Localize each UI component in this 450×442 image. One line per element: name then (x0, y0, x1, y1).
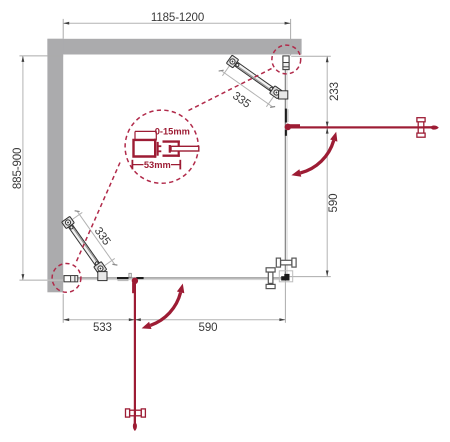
leader dashes (detail to small circles) (75, 67, 273, 264)
svg-text:53mm: 53mm (144, 160, 171, 170)
door line bottom (134, 281, 136, 423)
door stub bottom (132, 283, 135, 294)
wall top (gray) (47, 39, 301, 55)
support strut bottom (335 brace) (61, 208, 119, 277)
door edge seal bottom (teardrop) (133, 423, 137, 431)
door stub top (289, 124, 300, 127)
wall left (gray) (47, 39, 63, 292)
dim line right 233/590 (326, 56, 328, 276)
arrow left-bottom (22, 274, 25, 280)
knob on right panel (horizontal spool) (276, 258, 296, 267)
hinge black bar right panel (upper) (285, 109, 287, 123)
wall anchor plate (226, 55, 238, 68)
arrow bottom-533-right (129, 318, 135, 321)
ext line bottom-left (62, 294, 64, 323)
glass panel right (vertical, double line) (285, 70, 288, 279)
strut bottom glass mount (98, 272, 107, 281)
glass clamp (270, 86, 283, 99)
joint circle near clamp (269, 87, 273, 91)
glass clamp (94, 262, 107, 275)
svg-text:590: 590 (199, 322, 218, 334)
wall profile C (left) (134, 140, 157, 157)
dim line top 1185-1200 (63, 22, 290, 24)
53mm dim (132, 160, 180, 170)
strut bar (68, 224, 101, 268)
arrow bottom-533-left (63, 318, 69, 321)
wall profile in top-right circle (283, 56, 289, 70)
hinge black bar bottom panel (left) (117, 277, 129, 279)
knob on bottom panel (vertical spool) (266, 268, 275, 289)
dashed detail circle (center) (125, 110, 198, 183)
strut dim line 335 (221, 71, 272, 107)
hinge black bar bottom panel (right) (136, 277, 143, 279)
door pivot top (285, 124, 292, 131)
strut top glass mount (279, 91, 288, 99)
joint circle near anchor (69, 225, 73, 229)
dim line left 885-900 (22, 56, 24, 280)
door line through handle top (418, 126, 432, 128)
strut bar (234, 61, 275, 92)
ext line top-right (290, 19, 292, 56)
swing arrow top door (300, 141, 333, 174)
arrow top-right (285, 22, 291, 25)
handle bottom door (spool) (126, 409, 146, 417)
strut dim ext lines (222, 66, 229, 76)
clamp screw (273, 89, 280, 96)
arrow right-590-bottom (326, 271, 329, 277)
door edge seal top (teardrop) (431, 125, 439, 129)
arrow right-233-bottom (326, 122, 329, 128)
corner bracket black L (284, 274, 289, 281)
joint circle near clamp (95, 261, 99, 265)
detail profile drawing (red cross-section) (134, 131, 180, 157)
handle top door (spool) (417, 118, 425, 138)
support strut top (335 brace) (218, 54, 285, 111)
svg-text:233: 233 (329, 82, 341, 101)
door pivot bottom (132, 278, 138, 284)
ext line right-top (291, 55, 331, 57)
0-15mm dim (135, 130, 156, 132)
svg-text:590: 590 (328, 194, 340, 213)
leader to top-right circle (189, 67, 274, 110)
arrow right-590-top (326, 128, 329, 134)
ext line left-bottom (19, 279, 47, 281)
arrow bottom-590-right (279, 318, 285, 321)
leader to bottom-left circle (75, 163, 120, 265)
door line through handle bottom (134, 410, 136, 424)
door top (red, open position) (285, 124, 432, 131)
corner bracket outline (279, 271, 292, 282)
arrow top-left (63, 22, 69, 25)
door bottom (red, open position) (132, 278, 138, 424)
svg-text:885-900: 885-900 (12, 148, 24, 190)
swing arrow bottom door (150, 292, 180, 325)
ext line left-top (19, 55, 63, 57)
hinge gray shadow bottom panel (118, 279, 129, 281)
arrow right-233-top (326, 56, 329, 62)
clamp screw (97, 265, 104, 272)
wall anchor plate (62, 216, 75, 228)
arrow bottom-590-left (135, 318, 141, 321)
dashed circle bottom-left (52, 264, 81, 293)
strut dim ext lines (72, 212, 82, 219)
dimension arrowheads (22, 22, 329, 321)
joint circle near anchor (235, 63, 239, 67)
ext line right-bottom (corner to dim) (290, 276, 331, 278)
arrow left-top (22, 56, 25, 62)
glass profile (right) top/bottom bars (163, 140, 180, 142)
hinge gray shadow right panel (287, 109, 288, 122)
53mm text bg (144, 160, 172, 170)
insert teeth (157, 142, 159, 156)
dimension extension lines (19, 19, 330, 323)
strut dim line 335 (77, 211, 115, 265)
door line top (289, 126, 432, 128)
wall profile in bottom-left circle (64, 276, 78, 282)
svg-text:0-15mm: 0-15mm (155, 127, 190, 137)
dimension lines (23, 23, 327, 320)
glass profile right stubs (178, 141, 180, 147)
dashed circle top-right (272, 45, 301, 74)
ext line top-left (62, 19, 64, 39)
glass panel bottom (horizontal, double line) (77, 277, 286, 280)
svg-text:1185-1200: 1185-1200 (151, 12, 204, 24)
anchor screw (64, 219, 71, 226)
glass profile inner bar (169, 145, 171, 153)
ext line bottom-right (corner down) (284, 279, 286, 323)
hinge small bracket bottom panel (129, 273, 131, 277)
dim line bottom 533/590 (63, 319, 285, 321)
anchor screw (229, 58, 236, 65)
svg-text:533: 533 (93, 322, 112, 334)
hinge black bar right panel (lower) (285, 130, 287, 136)
glass pane in detail (171, 146, 199, 151)
middle cap bar (154, 139, 156, 158)
